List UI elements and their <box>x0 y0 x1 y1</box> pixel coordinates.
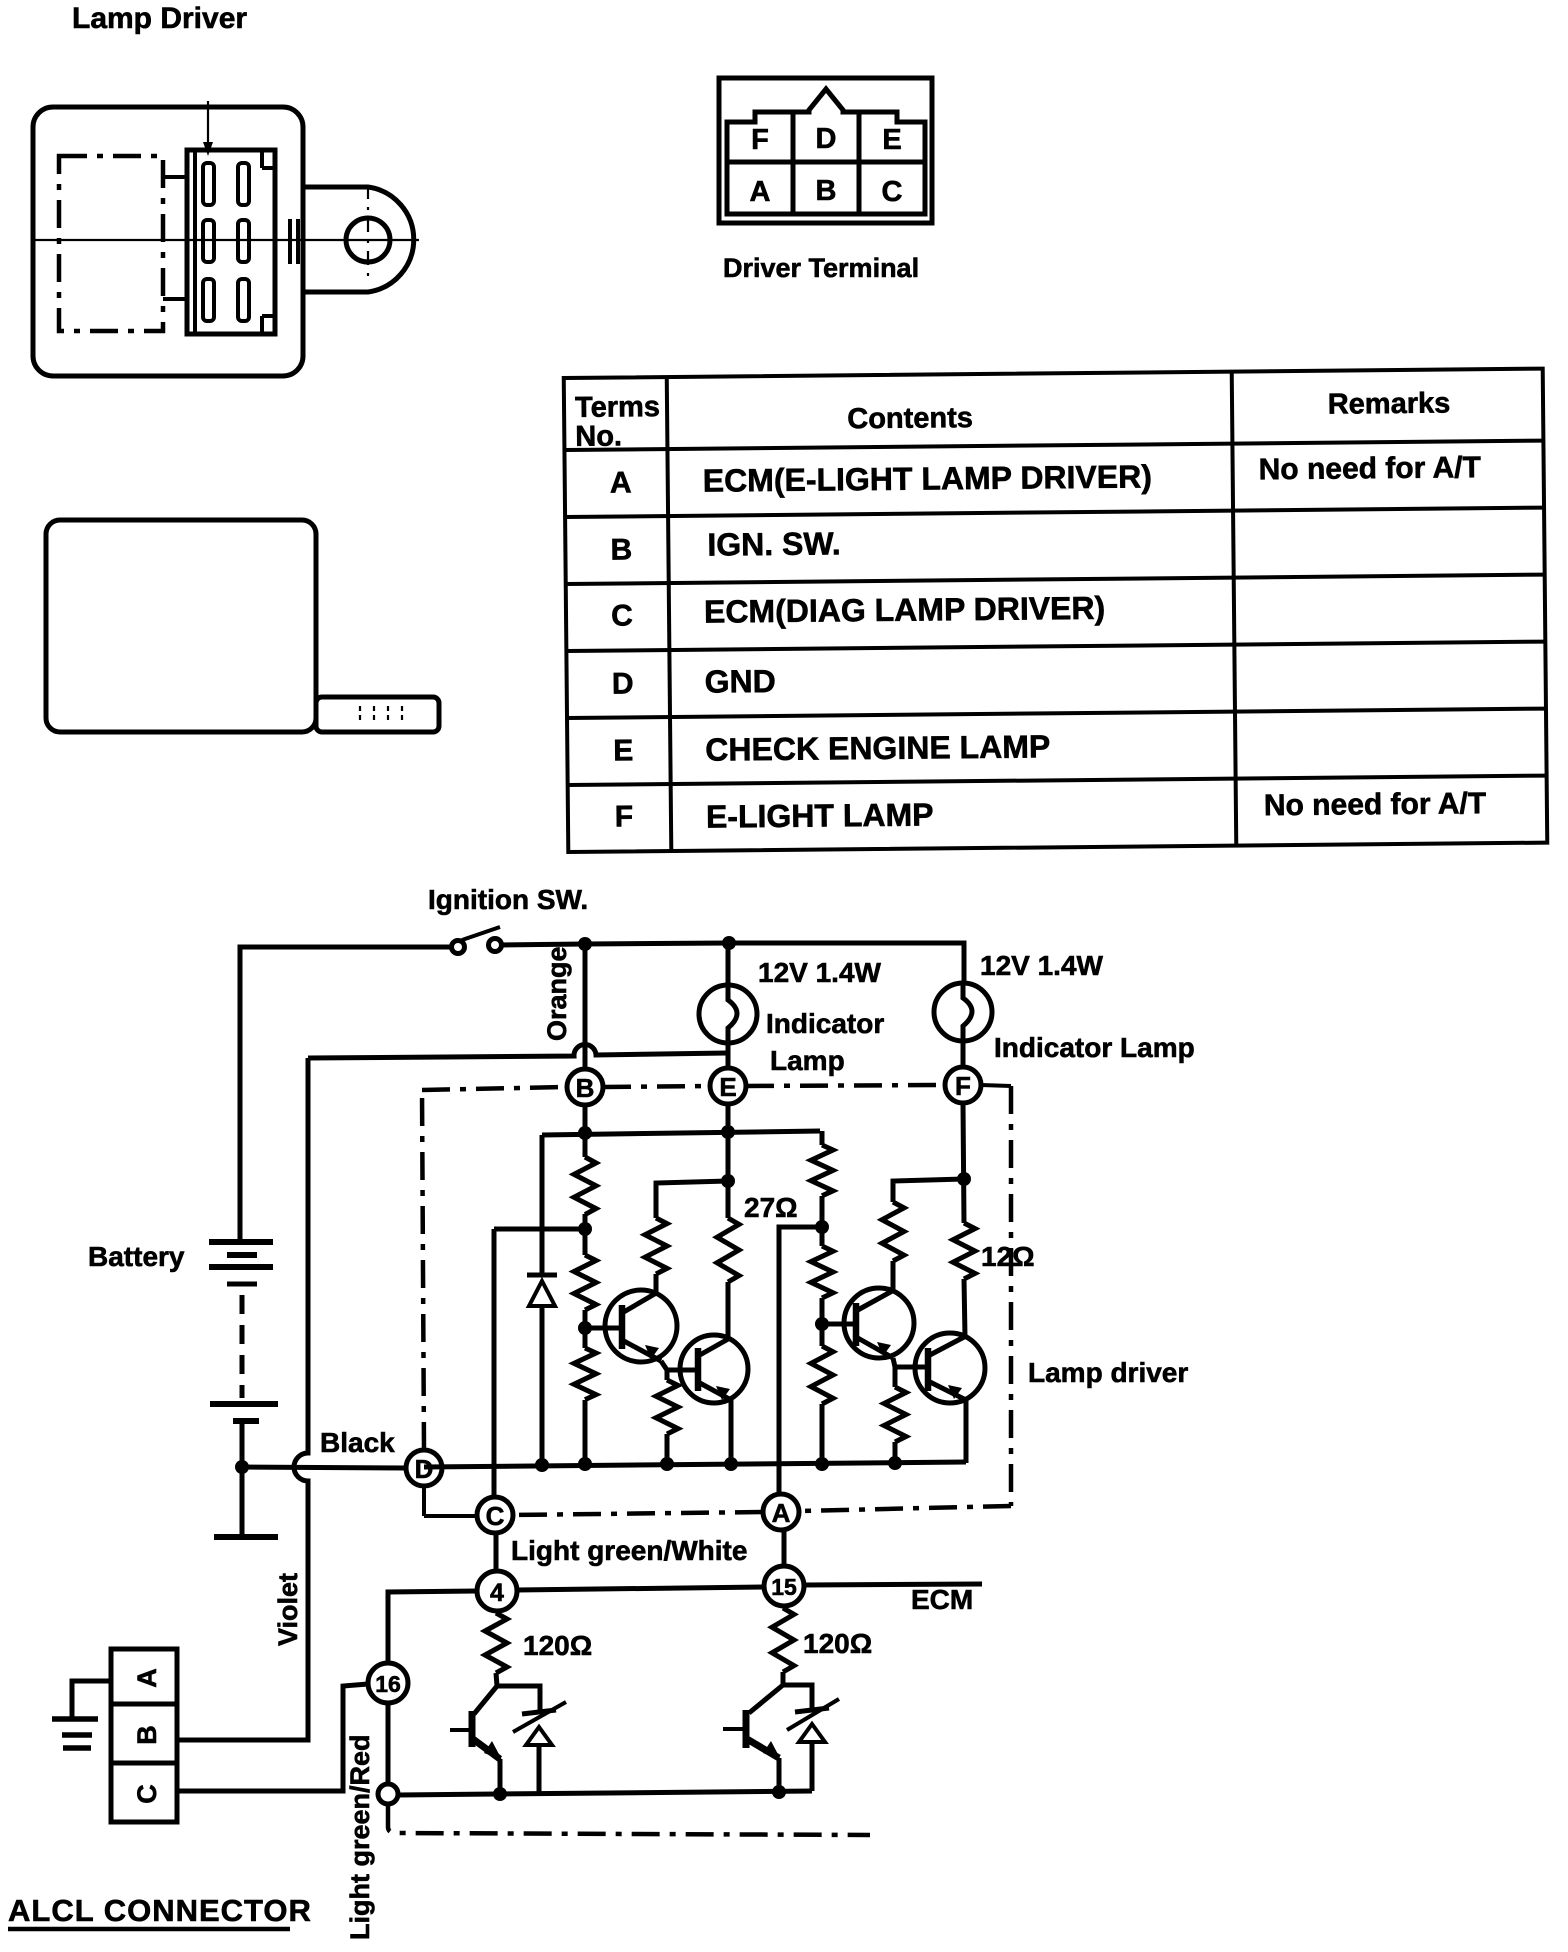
wire terminal C to ECM pin 4 <box>494 1533 499 1572</box>
svg-text:A: A <box>132 1668 162 1688</box>
wire base node to Q3 <box>822 1322 856 1327</box>
svg-text:A: A <box>750 176 771 208</box>
svg-text:D: D <box>816 123 837 155</box>
resistor R3 <box>574 1348 596 1400</box>
black wire ground to terminal D <box>242 1467 406 1468</box>
svg-text:15: 15 <box>771 1574 797 1600</box>
junction Q2 emitter on rail <box>724 1457 738 1471</box>
svg-text:No need for A/T: No need for A/T <box>1264 787 1487 822</box>
wire node to C riser <box>494 1227 585 1232</box>
svg-text:Indicator: Indicator <box>766 1008 884 1039</box>
svg-text:D: D <box>612 667 634 700</box>
resistor 120 ohm (pin 15) <box>772 1608 794 1672</box>
svg-text:F: F <box>751 124 769 156</box>
junction diode on rail <box>535 1458 549 1472</box>
wire 27 ohm to Q2 collector <box>726 1282 731 1340</box>
svg-text:No.: No. <box>575 420 622 452</box>
terminal E <box>710 1068 746 1104</box>
wire Q3 emitter node to R7 <box>893 1367 898 1387</box>
svg-text:Ignition SW.: Ignition SW. <box>428 884 588 915</box>
svg-text:Indicator Lamp: Indicator Lamp <box>994 1032 1195 1063</box>
ignition switch SW1 <box>452 927 502 954</box>
svg-text:B: B <box>576 1073 595 1103</box>
violet wire (hops black wire) down to ALCL B <box>179 1058 308 1740</box>
svg-text:Remarks: Remarks <box>1328 388 1451 421</box>
svg-text:C: C <box>611 599 633 632</box>
wire terminal A to ECM pin 15 <box>782 1530 787 1567</box>
ECM driver transistor Q5 <box>450 1686 502 1794</box>
svg-text:B: B <box>610 533 632 566</box>
svg-text:12V 1.4W: 12V 1.4W <box>980 950 1104 981</box>
svg-text:E: E <box>613 734 633 767</box>
svg-text:No need for A/T: No need for A/T <box>1259 451 1482 486</box>
svg-text:E-LIGHT LAMP: E-LIGHT LAMP <box>706 796 934 834</box>
wire R3 to ground rail <box>583 1400 588 1465</box>
resistor R5 <box>811 1246 833 1298</box>
ECM pin 4 <box>477 1571 517 1611</box>
svg-text:C: C <box>132 1784 162 1804</box>
resistor 27 ohm <box>717 1218 739 1282</box>
junction at orange wire <box>578 937 592 951</box>
junction Q3 base node <box>815 1317 829 1331</box>
terminal A <box>763 1494 799 1530</box>
wire pin 16 to splice <box>386 1703 391 1784</box>
relay pin 6 <box>238 279 249 321</box>
relay coil dash-dot box <box>59 156 163 331</box>
junction R4/R5 node <box>815 1220 829 1234</box>
svg-text:Lamp Driver: Lamp Driver <box>72 2 247 35</box>
svg-text:C: C <box>486 1501 505 1531</box>
svg-text:Driver Terminal: Driver Terminal <box>723 253 919 283</box>
svg-text:GND: GND <box>705 663 776 700</box>
junction R2b on rail <box>660 1457 674 1471</box>
relay mounting ear <box>290 187 414 292</box>
resistor 12 ohm <box>953 1223 975 1279</box>
wire 12 ohm to Q4 collector <box>964 1279 965 1337</box>
wire switch to node B top <box>501 944 585 945</box>
wire lamp E top lead <box>726 943 731 986</box>
svg-text:Contents: Contents <box>847 402 973 435</box>
ECM pin 15 <box>764 1566 804 1606</box>
wire battery to ignition switch <box>240 947 452 1242</box>
resistor R4 <box>811 1145 833 1196</box>
transistor Q3 <box>844 1288 914 1358</box>
zener diode Z2 <box>783 1685 839 1791</box>
svg-text:Light green/Red: Light green/Red <box>345 1734 375 1940</box>
svg-text:12Ω: 12Ω <box>981 1241 1035 1272</box>
wire ALCL C to splice <box>177 1684 368 1791</box>
svg-text:CHECK ENGINE LAMP: CHECK ENGINE LAMP <box>705 728 1050 767</box>
wire diode branch top <box>540 1135 545 1273</box>
svg-text:E: E <box>719 1072 736 1102</box>
relay pin 2 <box>238 163 249 205</box>
wire pin 4 to pin 15 <box>517 1587 764 1590</box>
wire Q1 emitter to Q2 base <box>661 1361 698 1370</box>
junction Q1 base node <box>578 1321 592 1335</box>
lamp driver relay outline (front view) <box>31 101 419 376</box>
resistor Rc1 <box>645 1218 667 1274</box>
splice node (open circle) <box>378 1784 398 1804</box>
resistor R2b <box>656 1380 678 1434</box>
wire 120 ohm to driver node <box>496 1673 497 1686</box>
wire battery negative to ground <box>240 1421 245 1535</box>
junction Q5 emitter on ECM rail <box>493 1787 507 1801</box>
resistor R2 <box>574 1255 596 1310</box>
terminal F <box>945 1067 981 1103</box>
C riser wire down to terminal C <box>492 1229 497 1497</box>
junction battery ground node <box>235 1460 249 1474</box>
wire R6 to rail <box>820 1404 825 1464</box>
junction at lamp E branch <box>722 936 736 950</box>
svg-text:C: C <box>882 176 903 208</box>
wire R4 to node <box>820 1196 825 1246</box>
svg-text:B: B <box>132 1725 162 1745</box>
svg-text:Terms: Terms <box>575 391 660 424</box>
transistor Q4 <box>915 1333 985 1403</box>
wire R1 to node <box>583 1214 588 1255</box>
relay centerline horizontal <box>31 239 419 241</box>
wire R7 to rail <box>893 1442 898 1463</box>
svg-text:12V 1.4W: 12V 1.4W <box>758 957 882 988</box>
label ALCL CONNECTOR <box>8 1893 312 1929</box>
svg-text:120Ω: 120Ω <box>523 1630 592 1661</box>
svg-text:Orange: Orange <box>542 946 572 1041</box>
relay pin block <box>163 150 275 334</box>
junction Q6 emitter on ECM rail <box>772 1785 786 1799</box>
junction R6 on rail <box>815 1457 829 1471</box>
relay pin 1 <box>203 163 214 205</box>
wire pin 4 stub to resistor <box>496 1611 497 1613</box>
relay ear hole <box>346 218 390 262</box>
driver terminal connector <box>719 78 932 223</box>
junction R7 on rail <box>888 1456 902 1470</box>
transistor Q2 <box>680 1335 748 1403</box>
wire lamp F to terminal F <box>961 1041 966 1068</box>
svg-text:ECM(E-LIGHT LAMP DRIVER): ECM(E-LIGHT LAMP DRIVER) <box>703 458 1152 498</box>
transistor Q1 <box>605 1290 677 1362</box>
junction Q3 collector on F column <box>957 1172 971 1186</box>
svg-text:16: 16 <box>375 1671 401 1697</box>
ECM pin 16 <box>368 1663 408 1703</box>
terminal D <box>406 1450 442 1486</box>
junction R1/R2 node <box>578 1222 592 1236</box>
svg-text:ECM: ECM <box>911 1584 973 1615</box>
terminal B <box>567 1069 603 1105</box>
wire pin 15 to ECM <box>804 1584 982 1585</box>
resistor 120 ohm (pin 4) <box>485 1613 507 1673</box>
relay ear center dash line <box>367 185 369 277</box>
wire Q1 emitter node to R2b <box>665 1370 670 1380</box>
wire E terminal down to collector node <box>726 1104 731 1218</box>
diode D1 <box>527 1275 557 1306</box>
resistor R1 <box>574 1157 596 1215</box>
lamp driver module boundary (dash-dot box) <box>422 1085 1011 1516</box>
svg-text:ECM(DIAG LAMP DRIVER): ECM(DIAG LAMP DRIVER) <box>704 590 1106 630</box>
svg-text:Black: Black <box>320 1427 395 1458</box>
wire B terminal to R1 <box>583 1105 588 1157</box>
svg-text:A: A <box>772 1498 791 1528</box>
svg-text:Light green/White: Light green/White <box>511 1535 747 1566</box>
relay pin 5 <box>203 279 214 321</box>
junction E column on supply rail <box>721 1125 735 1139</box>
indicator lamp E <box>699 985 757 1043</box>
wire Q3 collector elbow <box>893 1179 964 1289</box>
wire to lamp F branch <box>729 943 964 984</box>
wire R2 to base node <box>583 1310 588 1348</box>
svg-text:F: F <box>615 800 634 833</box>
section line with arrow <box>203 101 213 156</box>
ECM driver transistor Q6 <box>723 1685 783 1792</box>
wire lamp E to terminal E <box>726 1043 731 1069</box>
wire Q2 emitter to rail <box>729 1400 734 1464</box>
svg-text:E: E <box>882 124 901 156</box>
wire R4 top corner <box>820 1131 825 1145</box>
ECM internal ground rail <box>398 1791 812 1795</box>
junction Q1 collector on E column <box>721 1174 735 1188</box>
ground rail D to Q4 <box>424 1462 966 1467</box>
resistor R7 <box>884 1387 906 1442</box>
svg-text:Battery: Battery <box>88 1241 185 1272</box>
wire pin 15 stub to resistor <box>783 1606 784 1608</box>
wire Q1 collector elbow <box>656 1181 728 1292</box>
battery <box>209 1242 278 1421</box>
svg-text:Violet: Violet <box>273 1573 303 1646</box>
svg-text:27Ω: 27Ω <box>744 1192 798 1223</box>
svg-text:B: B <box>816 175 837 207</box>
relay pin 3 <box>203 220 214 262</box>
svg-text:Lamp: Lamp <box>770 1045 845 1076</box>
wire Q4 emitter to rail end <box>964 1400 969 1463</box>
svg-text:ALCL CONNECTOR: ALCL CONNECTOR <box>8 1893 312 1928</box>
svg-text:120Ω: 120Ω <box>803 1628 872 1659</box>
wire violet branch to lamp E line (hops orange wire) <box>308 1044 727 1058</box>
wire R5 to base node <box>820 1298 825 1346</box>
wire F terminal down to node <box>963 1103 964 1223</box>
wire diode to ground rail <box>540 1305 545 1465</box>
A riser wire from R4 node to terminal A <box>779 1227 822 1494</box>
terminal C <box>477 1497 513 1533</box>
indicator lamp F <box>934 983 992 1041</box>
wire pin 4 to pin 16 <box>388 1591 477 1663</box>
wire R2b to rail <box>665 1434 670 1464</box>
wire base node to Q1 <box>585 1326 622 1331</box>
zener diode Z1 <box>497 1686 566 1793</box>
svg-text:4: 4 <box>490 1579 504 1607</box>
junction R3 on rail <box>578 1457 592 1471</box>
relay pin 4 <box>238 220 249 262</box>
internal supply rail from diode to R4 <box>542 1131 820 1135</box>
wire Q3 emitter to Q4 base <box>893 1358 928 1367</box>
terminal function table <box>564 369 1548 852</box>
resistor R8 <box>882 1202 904 1261</box>
orange wire (ignition to terminal B) <box>583 944 588 1069</box>
junction B column on supply rail <box>578 1126 592 1140</box>
resistor R6 <box>811 1346 833 1404</box>
lamp driver module (side view) <box>46 520 439 732</box>
wire to lamp E branch <box>585 943 729 944</box>
ground (ALCL) <box>52 1719 98 1748</box>
svg-text:F: F <box>955 1071 971 1101</box>
wire ALCL A to ground <box>72 1681 111 1719</box>
ALCL connector <box>111 1649 177 1822</box>
ground (battery) <box>214 1534 278 1540</box>
svg-text:A: A <box>610 466 632 499</box>
svg-text:Lamp driver: Lamp driver <box>1028 1357 1188 1388</box>
wire 120 ohm to driver node <box>781 1672 786 1685</box>
ECM boundary dash-dot <box>388 1804 870 1835</box>
svg-text:IGN. SW.: IGN. SW. <box>707 525 841 562</box>
